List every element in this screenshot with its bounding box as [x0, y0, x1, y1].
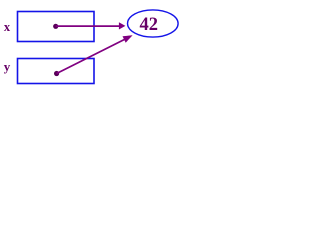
box x (variable x rectangle) [18, 12, 95, 42]
arrowhead x [119, 22, 126, 29]
box y (variable y rectangle) [18, 59, 95, 84]
svg-text:y: y [4, 59, 11, 74]
arrowhead y [123, 35, 133, 43]
svg-text:x: x [4, 20, 11, 34]
dot in box x [53, 24, 58, 29]
wire arrow x to 42 (shaft) [56, 25, 120, 27]
dot in box y [54, 71, 59, 76]
wire arrow y to 42 (shaft) [57, 38, 127, 73]
background [0, 0, 185, 99]
ellipse node 42 [128, 10, 179, 37]
svg-text:42: 42 [140, 15, 159, 35]
